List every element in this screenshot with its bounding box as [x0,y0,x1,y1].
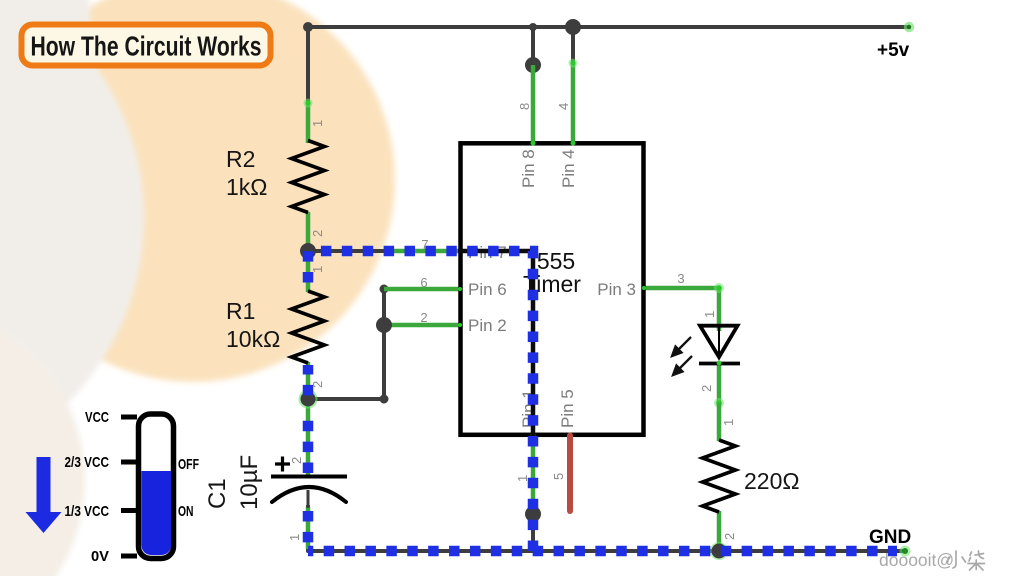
current path dashes: R1 bottom through C1 [303,365,314,399]
wire: green lead IC pin4 [571,63,576,143]
wire: green pin3 wire to LED [644,288,719,331]
wire: +5v top rail [308,27,909,102]
IC U1 555 timer body [461,143,644,435]
wire: green lead LED cathode [717,363,722,404]
wire: pin6/pin2 connector [308,289,384,399]
discharge arrow [26,457,62,533]
wire: green lead IC pin8 [531,65,536,143]
tick VCC [121,415,137,420]
svg-text:0V: 0V [91,548,109,565]
svg-text:1kΩ: 1kΩ [226,174,268,200]
svg-text:3: 3 [677,271,684,286]
svg-text:220Ω: 220Ω [744,468,800,494]
node: IC pin terminal dots [531,141,536,146]
wire: green lead R1 top [306,251,311,292]
svg-text:1: 1 [310,120,325,127]
svg-text:2: 2 [420,310,427,325]
resistor R3 220 ohm [703,440,736,512]
svg-text:2: 2 [722,533,737,540]
wire: green lead R1 bottom [306,362,311,400]
node: pin2 junction [376,317,392,333]
current path dashes: below C1 and along ground rail [303,507,314,551]
svg-text:2/3 VCC: 2/3 VCC [65,454,110,471]
svg-text:How The Circuit Works: How The Circuit Works [31,31,262,62]
svg-text:10kΩ: 10kΩ [226,326,280,352]
wire: discharge path through IC [458,251,533,436]
svg-text:1: 1 [287,534,302,541]
svg-text:Pin 6: Pin 6 [468,280,507,299]
wire: green lead R2 bottom [306,212,311,251]
current path dashes: down through R1 [303,246,314,285]
tick 1/3 VCC [121,508,137,513]
node: R1/C1 junction [299,390,318,409]
svg-text:GND: GND [869,527,911,548]
LED D1 [699,326,740,364]
svg-text:OFF: OFF [178,456,199,473]
tick 0V [121,554,137,559]
wire: pin1 stub to ground [531,514,535,551]
svg-text:R1: R1 [226,298,255,324]
svg-text:8: 8 [517,103,532,110]
wire: pin 4 stub from rail [571,27,575,63]
svg-text:2: 2 [310,381,325,388]
voltage level indicator body [139,414,174,559]
current path dashes: junction to pin7 and down through IC [313,251,533,556]
node: R2/R1 junction [300,243,316,259]
wire: green lead R3 bottom [717,511,722,551]
svg-text:C1: C1 [204,478,231,509]
svg-text:1: 1 [515,475,530,482]
svg-text:Pin 5: Pin 5 [558,389,577,428]
node: ground terminal [900,546,911,557]
title: How The Circuit Works [22,25,271,66]
svg-text:1: 1 [721,419,736,426]
wire: green lead IC pin6 [384,287,460,292]
svg-text:7: 7 [421,237,428,252]
svg-text:6: 6 [420,275,427,290]
svg-text:1/3 VCC: 1/3 VCC [65,503,110,520]
svg-text:VCC: VCC [85,409,109,426]
svg-text:1: 1 [310,266,325,273]
svg-text:Pin 3: Pin 3 [597,280,636,299]
wire: green lead R3 top [717,403,722,441]
wire: green lead IC pin2 [384,323,460,328]
wire: bottom ground rail [308,505,905,551]
svg-text:R2: R2 [226,146,255,172]
tick 2/3 VCC [121,460,137,465]
svg-text:Pin 8: Pin 8 [519,149,538,188]
node: pin1 junction [525,506,541,522]
wire: green lead R2 top [306,102,311,143]
wire: pin 8 stub from rail [531,27,535,66]
svg-text:1: 1 [702,311,717,318]
node: +5v terminal [904,22,914,32]
wire: green lead IC pin7 [384,249,460,254]
wire: green lead IC pin1 [531,435,536,514]
svg-text:5: 5 [551,473,566,480]
capacitor C1 [271,457,347,503]
node: rail joint at pin4 [565,19,581,35]
svg-text:+5v: +5v [877,40,910,61]
svg-text:Pin 4: Pin 4 [559,149,578,188]
wire: junction R2/R1 to pin 7 [308,249,386,253]
svg-text:dooooit@: dooooit@ [879,550,954,570]
svg-text:4: 4 [556,103,571,110]
resistor R1 [292,291,325,363]
svg-text:2: 2 [289,457,304,464]
wire: green lead C1 top [306,400,311,475]
svg-text:2: 2 [699,385,714,392]
node: ground rail at R3 [710,542,728,560]
voltage level blue fill [142,471,172,555]
svg-text:2: 2 [310,230,325,237]
wire: green lead C1 bottom [306,507,311,549]
LED light arrows [672,337,692,375]
red wire pin 5 [567,436,573,512]
svg-text:10µF: 10µF [236,455,263,510]
svg-text:Pin 2: Pin 2 [468,316,507,335]
svg-text:ON: ON [178,503,194,520]
resistor R2 [292,141,325,213]
node: elbow on pin8 wire [525,57,541,73]
